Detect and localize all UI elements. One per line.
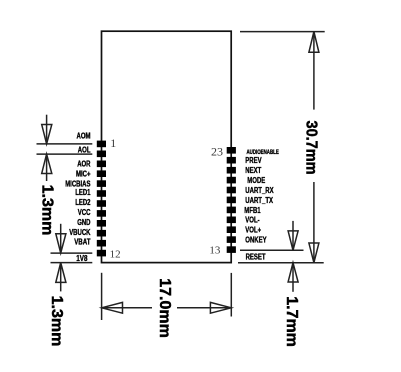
svg-text:NEXT: NEXT — [245, 166, 261, 175]
svg-text:VOL+: VOL+ — [245, 226, 261, 235]
svg-text:UART_TX: UART_TX — [245, 196, 273, 205]
pin 18 pad — [227, 197, 236, 204]
pin 4 pad — [97, 170, 106, 177]
pin 2 pad — [97, 151, 106, 158]
pin 10 pad — [97, 230, 106, 237]
svg-text:UART_RX: UART_RX — [245, 186, 274, 195]
dimension 1.3mm top: up arrow — [42, 154, 52, 181]
svg-text:AOR: AOR — [77, 160, 90, 169]
svg-text:1: 1 — [110, 136, 116, 150]
svg-text:VCC: VCC — [78, 208, 91, 217]
svg-text:AOL: AOL — [78, 145, 91, 154]
dimension 1.3mm top: down arrow — [42, 115, 52, 144]
extension line pin1 center (left dim 1.3mm top) — [37, 143, 93, 145]
extension line pin13 center (for 1.7mm) — [240, 249, 304, 251]
extension line module top right (for 30.7mm) — [240, 31, 325, 33]
svg-text:ONKEY: ONKEY — [245, 236, 267, 245]
pin 7 pad — [97, 200, 106, 207]
svg-text:GND: GND — [77, 218, 90, 227]
svg-text:VBAT: VBAT — [74, 238, 90, 247]
dimension 30.7mm: dim line lower segment — [313, 182, 315, 263]
pin 17 pad — [227, 207, 236, 214]
svg-text:PREV: PREV — [245, 156, 262, 165]
svg-text:AOM: AOM — [77, 132, 91, 141]
extension line pin2 center — [37, 153, 93, 155]
pin 5 pad — [97, 180, 106, 187]
dimension 17.0mm: right arrow — [210, 302, 231, 313]
dimension 30.7mm: dim line upper segment — [313, 32, 315, 110]
module outline U1 — [102, 31, 232, 262]
svg-text:1.7mm: 1.7mm — [283, 296, 300, 347]
dimension 1.7mm: up arrow — [288, 263, 298, 292]
svg-text:RESET: RESET — [246, 253, 266, 262]
dimension 1.3mm bottom: up arrow — [56, 263, 66, 292]
pin 8 pad — [97, 210, 106, 217]
extension line module bottom left — [51, 262, 93, 264]
dimension 30.7mm: up arrow — [309, 32, 319, 53]
pin 21 pad — [227, 167, 236, 174]
pin 12 pad — [97, 250, 106, 257]
left pin pads 1-12 — [97, 141, 106, 257]
pin 20 pad — [227, 177, 236, 184]
svg-text:30.7mm: 30.7mm — [303, 121, 320, 175]
svg-text:MICBIAS: MICBIAS — [65, 180, 91, 189]
extension line pin12 center (left dim 1.3mm bottom) — [51, 252, 93, 254]
svg-text:AUDIOENABLE: AUDIOENABLE — [247, 150, 279, 156]
right pin labels — [244, 150, 278, 262]
pin 15 pad — [227, 226, 236, 233]
pin 19 pad — [227, 187, 236, 194]
svg-text:23: 23 — [211, 144, 223, 158]
dimension 17.0mm: dim line left segment — [102, 307, 152, 309]
dimension 17.0mm: dim line right segment — [177, 307, 231, 309]
pin 3 pad — [97, 161, 106, 168]
dimension 30.7mm: down arrow — [309, 243, 319, 263]
svg-text:MODE: MODE — [247, 176, 265, 185]
svg-text:VOL-: VOL- — [245, 216, 260, 225]
dimension 1.3mm bottom: down arrow — [56, 224, 66, 253]
pin 1 pad — [97, 141, 106, 148]
pin 23 pad — [227, 147, 236, 154]
extension line below module bottom-right corner (for 17.0mm) — [230, 273, 232, 317]
dimension 1.7mm: down arrow — [288, 221, 298, 250]
pin 16 pad — [227, 217, 236, 224]
pin 13 pad — [227, 246, 236, 253]
pin 22 pad — [227, 157, 236, 164]
pin 11 pad — [97, 240, 106, 247]
extension line module bottom right — [238, 262, 324, 264]
extension line below module bottom-left corner (for 17.0mm) — [101, 273, 103, 320]
pin 6 pad — [97, 190, 106, 197]
svg-text:LED1: LED1 — [75, 188, 91, 197]
dimension 17.0mm: left arrow — [102, 302, 123, 313]
pin 14 pad — [227, 236, 236, 243]
right pin pads 23-13 — [227, 147, 236, 253]
svg-text:MFB1: MFB1 — [244, 206, 261, 215]
svg-text:12: 12 — [110, 249, 121, 261]
svg-text:1.3mm: 1.3mm — [39, 185, 56, 236]
svg-text:13: 13 — [209, 244, 221, 256]
svg-text:17.0mm: 17.0mm — [156, 278, 173, 338]
pin 9 pad — [97, 220, 106, 227]
svg-text:VBUCK: VBUCK — [69, 228, 90, 237]
svg-text:MIC+: MIC+ — [76, 170, 91, 179]
left pin labels — [65, 132, 91, 264]
svg-text:1.3mm: 1.3mm — [48, 296, 65, 347]
svg-text:LED2: LED2 — [75, 198, 91, 207]
